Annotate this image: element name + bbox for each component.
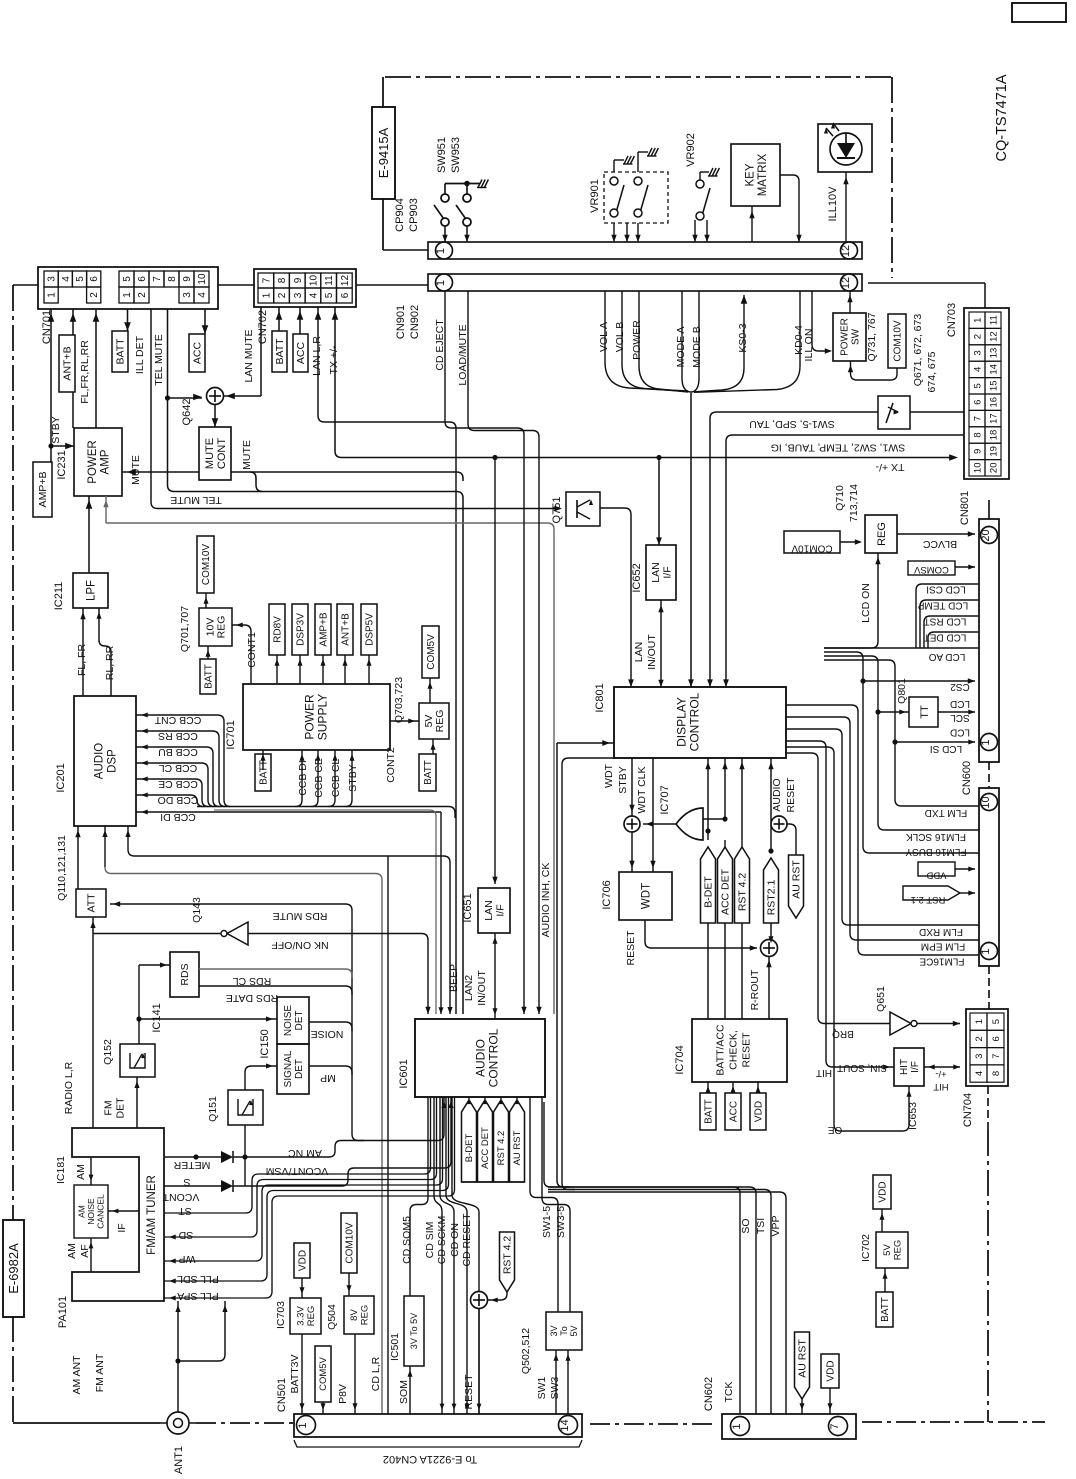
svg-text:7: 7 [829,1423,841,1429]
opto box Q6xx (SW1-5 line) [878,396,910,429]
svg-text:CCB CE: CCB CE [313,758,325,798]
svg-text:To E-9221A CN402: To E-9221A CN402 [383,1453,477,1465]
svg-text:VOL A: VOL A [598,322,610,352]
net LCD DET [928,632,979,648]
svg-text:WDT CLK: WDT CLK [636,766,648,813]
svg-text:RDS DATE: RDS DATE [226,992,278,1004]
svg-text:HIT: HIT [933,1081,949,1092]
svg-text:10: 10 [197,273,208,285]
svg-text:FL,FR,RL,RR: FL,FR,RL,RR [79,340,91,404]
svg-text:18: 18 [989,430,1000,441]
net LCD SI [892,739,897,744]
svg-text:SW3: SW3 [549,1376,561,1399]
net BATT (CN702) [278,307,280,331]
block 3V To 5V (switches) [546,1312,582,1350]
svg-text:FM ANT: FM ANT [94,1353,106,1392]
dsp bottom long nets [104,826,106,867]
net SW1, SW2, TEMP, TAUB, IG [726,435,964,545]
svg-text:RL, RR: RL, RR [104,645,116,680]
svg-text:CONT1: CONT1 [246,632,258,668]
box BATT (5v reg) [432,739,434,754]
svg-text:AUDIO INH, CK: AUDIO INH, CK [540,863,552,938]
svg-text:2: 2 [974,1036,985,1041]
svg-text:CCB DI: CCB DI [297,760,309,796]
E-9415A module dash-dot border [385,76,892,78]
right column dash-dot links [988,500,990,519]
box BATT (10v) [207,646,209,659]
sum node R-ROUT [761,940,778,957]
net BATT (CN701) [127,309,129,331]
net FLM16 SCLK [878,824,979,831]
svg-text:11: 11 [989,315,1000,325]
svg-text:FLM16 SCLK: FLM16 SCLK [906,831,966,842]
E-9415A label box [372,107,395,199]
svg-text:674, 675: 674, 675 [926,351,938,392]
svg-text:12: 12 [840,245,852,257]
svg-text:AU RST: AU RST [796,1339,808,1378]
svg-text:RST 4.2: RST 4.2 [496,1131,507,1166]
sum node WDT [624,816,640,832]
svg-text:Q502,512: Q502,512 [520,1328,532,1374]
svg-text:IC652: IC652 [631,563,643,592]
svg-text:LCD DET: LCD DET [924,632,967,643]
svg-text:AU RST: AU RST [512,1130,523,1165]
svg-text:CCB BU: CCB BU [158,746,198,758]
connector CN702 [254,269,356,307]
svg-text:HIT: HIT [816,1067,832,1078]
page number box (top right) [1012,3,1066,22]
svg-text:IC706: IC706 [601,880,613,909]
svg-text:1: 1 [974,1019,985,1024]
svg-text:10: 10 [980,796,992,808]
connector bar E-9415A side (pins 1-12) [428,242,862,259]
sum node cd reset [471,1292,488,1309]
wire bar2 to CN703 [868,282,985,284]
switch SW953 [463,194,471,202]
svg-text:PA101: PA101 [57,1296,69,1328]
svg-text:BATT3V: BATT3V [289,1355,301,1394]
svg-text:AMP+B: AMP+B [37,472,49,508]
svg-text:CCB CNT: CCB CNT [154,714,201,726]
wire sum to WDT block [631,832,633,872]
svg-text:2: 2 [89,292,100,298]
svg-text:1: 1 [47,292,58,298]
svg-text:Q751: Q751 [551,497,563,524]
svg-text:R-ROUT: R-ROUT [749,969,761,1010]
svg-text:3: 3 [293,292,304,298]
svg-text:E-9415A: E-9415A [376,127,391,178]
svg-text:7: 7 [991,1054,1002,1059]
svg-text:1: 1 [973,318,984,323]
svg-text:MP: MP [320,1072,336,1084]
svg-text:6: 6 [973,400,984,405]
net RDS DATE [199,986,352,995]
wire CN701 to CN702 [218,284,254,286]
svg-text:Q731, 767: Q731, 767 [866,312,878,361]
net AMP+B / STBY (pin1) [50,309,52,462]
svg-text:5: 5 [75,276,86,282]
svg-text:BATT: BATT [423,760,434,785]
svg-text:13: 13 [989,348,1000,359]
net LCD TEMP [920,600,979,648]
svg-text:19: 19 [989,446,1000,457]
svg-text:ACC DET: ACC DET [480,1127,491,1169]
antenna ANT1 [167,1412,189,1434]
box VDD (cn602) [821,1354,839,1388]
wire SW953 to bar1 [466,226,468,242]
VR901 dashed box [604,172,668,223]
svg-text:1: 1 [435,280,447,286]
svg-text:2: 2 [137,292,148,298]
svg-text:DSP5V: DSP5V [364,613,375,646]
wire sum to MUTE CONT [214,405,216,428]
connector CN703 (pins 1-20) [964,308,1009,479]
svg-text:4: 4 [974,1071,985,1076]
net LAN line drop from TX bus [658,458,660,546]
cd control nets to CN501 [434,1097,442,1414]
svg-text:Q710: Q710 [834,485,846,511]
svg-text:CN600: CN600 [961,761,973,795]
svg-text:VR901: VR901 [589,179,601,213]
svg-text:Q143: Q143 [191,897,203,923]
svg-text:COM5V: COM5V [426,634,437,670]
svg-text:CD L,R: CD L,R [370,1356,382,1391]
svg-text:SCL: SCL [950,712,970,723]
box VDD (3.3v) [294,1243,310,1278]
svg-text:3VTo5V: 3VTo5V [549,1325,579,1336]
svg-text:AMP+B: AMP+B [318,612,329,647]
svg-text:TSI: TSI [755,1218,767,1234]
box ACC [189,334,205,372]
svg-text:ACC DET: ACC DET [719,868,731,915]
svg-text:IC702: IC702 [860,1234,872,1262]
svg-text:6: 6 [991,1036,1002,1041]
net CCB DI (dsp) [136,811,441,813]
svg-text:1: 1 [731,1423,743,1429]
net CONT1 [232,625,251,684]
svg-text:BLVCC: BLVCC [922,538,957,550]
wire SW951 to bar1 [444,226,446,242]
net SIN, SOUT / HIT [786,741,894,1067]
net FLM RXD [786,729,979,925]
box VDD (CN600) [918,862,955,876]
svg-text:RST2.1: RST2.1 [765,880,777,916]
svg-text:COM10V: COM10V [892,320,903,361]
svg-text:4: 4 [308,292,319,298]
svg-text:3V To 5V: 3V To 5V [409,1313,419,1349]
svg-text:RD8V: RD8V [272,616,283,643]
net FLM16CE [786,705,979,955]
net LCD CSI [916,584,979,648]
ccb bus lines [136,715,231,807]
main unit border (left dash-dot) [12,285,14,1220]
svg-text:IC141: IC141 [151,1003,163,1032]
svg-text:713,714: 713,714 [848,484,860,522]
connector CN801 [979,519,999,762]
net MUTE return to MUTE CONT [231,472,463,481]
block 10V REG [199,608,232,646]
KEY MATRIX block [731,144,780,206]
net drop from TX bus to LAN I/F IC651 [494,458,496,885]
wires VR901 to bar1 [613,223,615,242]
svg-text:IC201: IC201 [55,763,67,792]
svg-text:ILL10V: ILL10V [827,186,839,222]
right border dash-dot (bottom) [987,1130,989,1422]
svg-text:CCB CL: CCB CL [330,759,342,798]
block AM NOISE CANCEL [74,1185,108,1238]
VR901 switch a [610,177,618,185]
box COM5V (5v reg) [429,678,431,703]
svg-text:FLM16CE: FLM16CE [919,956,964,967]
net LCD RST [924,616,979,648]
svg-text:ACC: ACC [295,341,307,364]
svg-text:10: 10 [308,275,319,287]
svg-text:FLM RXD: FLM RXD [919,926,963,937]
box VDD (ic702) [873,1175,891,1209]
svg-text:PLL SDL: PLL SDL [177,1273,219,1285]
net ACC (CN701) [204,309,206,334]
svg-text:WP: WP [179,1253,196,1265]
box BATT (ic702) [876,1292,893,1327]
svg-text:SD: SD [178,1229,193,1241]
wire Q151 to SIGNAL DET [245,1066,277,1090]
svg-text:6: 6 [340,292,351,298]
svg-text:CN901: CN901 [395,305,407,339]
svg-text:+/-: +/- [935,1068,946,1079]
net to POWER AMP pin2 (long gray) [105,496,107,523]
net ANT+B [72,309,74,335]
net FLM EPM [786,717,979,940]
svg-text:AM: AM [66,1243,78,1259]
svg-text:AUDIO: AUDIO [771,778,783,811]
svg-text:Q151: Q151 [207,1096,219,1122]
svg-text:VDD: VDD [825,1360,836,1381]
svg-text:SIN, SOUT: SIN, SOUT [837,1062,887,1073]
svg-text:CCB DO: CCB DO [158,794,199,806]
net MP [309,1066,352,1075]
connector bar CN602 [722,1414,856,1439]
E-6982A label box [3,1220,24,1317]
svg-text:4: 4 [61,276,72,282]
svg-text:CD SCKM: CD SCKM [436,1216,448,1264]
svg-text:ANT1: ANT1 [173,1446,185,1474]
connector CN600 [979,788,999,966]
svg-text:BATT: BATT [258,760,269,785]
net ACC (CN702) [299,307,301,334]
wire border to CN701 [13,284,38,286]
net OE [786,747,909,1131]
box AMP+B [33,462,52,517]
svg-text:RADIO L,R: RADIO L,R [63,1061,75,1114]
svg-text:12: 12 [840,277,852,289]
diode D2 [221,1180,233,1192]
wire 10V REG to COM10V [205,593,207,608]
svg-text:5: 5 [122,276,133,282]
wire to RDS input [136,1016,141,1021]
box COM10V (keys) [888,314,906,368]
svg-text:LCD AO: LCD AO [928,651,965,662]
svg-text:17: 17 [989,413,1000,424]
svg-text:14: 14 [989,364,1000,375]
svg-text:FLM EPM: FLM EPM [921,941,965,952]
svg-text:8: 8 [973,432,984,437]
svg-text:TX +/-: TX +/- [328,345,340,374]
svg-text:POWERSUPPLY: POWERSUPPLY [303,694,330,740]
svg-text:TEL MUTE: TEL MUTE [153,334,165,386]
svg-text:16: 16 [989,397,1000,408]
svg-text:15: 15 [989,381,1000,392]
svg-text:LCD ON: LCD ON [860,583,872,623]
box ANT+B [59,335,75,392]
connector bar CN501 [294,1414,582,1437]
switch SW951 [441,194,449,202]
wire into Q801 [875,709,880,714]
svg-text:SW1-5: SW1-5 [541,1206,553,1238]
funnel to display control [690,391,692,687]
box COMSV [908,561,955,575]
svg-text:FL, FR: FL, FR [76,644,88,677]
svg-text:VDD: VDD [753,1101,764,1122]
svg-text:HITI/F: HITI/F [899,1059,921,1075]
wire Q151 bottom [244,1125,246,1186]
svg-text:CD EJECT: CD EJECT [434,319,446,371]
wire Q751 to DISPLAY CONTROL [600,508,631,687]
net AU RST pennant [789,855,804,918]
wire COM10V to REG [840,541,860,543]
svg-text:SO: SO [740,1218,752,1233]
svg-text:IC701: IC701 [225,720,237,749]
svg-text:CN602: CN602 [703,1377,715,1411]
svg-text:NK ON/OFF: NK ON/OFF [271,939,328,951]
svg-text:6: 6 [89,276,100,282]
svg-text:CQ-TS7471A: CQ-TS7471A [994,74,1010,161]
svg-text:20: 20 [989,463,1000,474]
svg-text:ANT+B: ANT+B [61,346,73,380]
net RST 4.2 flag [741,758,743,840]
block HIT I/F IC653 [894,1048,924,1086]
svg-text:IC707: IC707 [659,785,671,814]
svg-text:LOAD/MUTE: LOAD/MUTE [457,324,469,385]
svg-text:LCD: LCD [950,727,970,738]
box COM10V (psu) [197,536,214,593]
wire TEL MUTE branch to sum [168,397,203,399]
svg-text:CN902: CN902 [409,305,421,339]
svg-text:1: 1 [297,1422,309,1428]
box ACC (IC704) [732,1082,734,1093]
svg-text:VDD: VDD [926,870,946,881]
svg-text:8: 8 [167,276,178,282]
svg-text:LAN MUTE: LAN MUTE [243,329,255,382]
svg-text:IC231: IC231 [56,450,68,479]
svg-text:IC704: IC704 [674,1045,686,1074]
wire ATT to DSP [77,826,79,889]
svg-text:CD SOM5: CD SOM5 [401,1216,413,1264]
svg-text:AM: AM [75,1164,87,1180]
svg-text:5: 5 [991,1019,1002,1024]
svg-text:5: 5 [973,383,984,388]
svg-text:CD ON: CD ON [449,1223,461,1257]
wire PSU to 5V REG [390,720,419,722]
svg-text:LCD CSI: LCD CSI [926,584,965,595]
svg-text:IF: IF [116,1223,128,1232]
tuner control nets ST SD WP PLL SDL PLL SPA [164,1097,431,1213]
svg-text:FLM TXD: FLM TXD [925,807,968,818]
box BATT (IC704) [707,1082,709,1093]
net FL,FR,RL,RR [95,309,97,428]
net RST2.1 flag [770,758,772,851]
svg-text:8: 8 [277,277,288,283]
svg-text:MUTECONT: MUTECONT [204,438,228,469]
block SIGNAL DET [277,1044,309,1094]
svg-text:VOL B: VOL B [614,322,626,353]
svg-text:WDT: WDT [641,883,653,909]
svg-text:BRQ: BRQ [832,1028,854,1039]
wire bar1 to KEY MATRIX [751,206,753,242]
svg-text:11: 11 [324,275,335,286]
svg-text:CCB CE: CCB CE [158,778,198,790]
svg-text:VCONT/VSM: VCONT/VSM [266,1165,328,1177]
svg-text:Q504: Q504 [326,1304,338,1330]
svg-text:POWER: POWER [631,320,643,360]
svg-text:ACC: ACC [191,341,203,364]
svg-text:ST: ST [178,1205,192,1217]
svg-text:Q671, 672, 673: Q671, 672, 673 [912,314,924,387]
svg-text:BATT: BATT [880,1297,891,1322]
block 3.3V REG [290,1298,321,1334]
svg-text:CP904: CP904 [394,198,406,232]
svg-text:IC211: IC211 [53,582,65,611]
svg-text:CD SIM: CD SIM [424,1222,436,1259]
svg-text:ATT: ATT [86,893,98,913]
net NK ON/OFF [93,933,221,935]
net NOISE [309,1022,352,1031]
svg-text:Q110,121,131: Q110,121,131 [56,835,68,901]
svg-text:9: 9 [293,277,304,283]
svg-text:SW3-5: SW3-5 [555,1206,567,1238]
svg-text:RST 4.2: RST 4.2 [736,873,748,911]
svg-text:CN501: CN501 [276,1378,288,1412]
svg-text:CN702: CN702 [257,310,269,344]
svg-text:STBY: STBY [617,766,629,793]
svg-text:12: 12 [989,331,1000,342]
svg-text:Q801: Q801 [896,678,908,704]
box COM10V (lcd) [784,531,840,553]
net BLVCC [897,533,975,535]
svg-text:MUTE: MUTE [241,440,253,470]
svg-text:MODE B: MODE B [691,326,703,367]
svg-text:VPP: VPP [770,1215,782,1236]
box COM5V (cn501) [315,1346,331,1402]
svg-text:IC150: IC150 [259,1029,271,1058]
svg-text:9: 9 [182,276,193,282]
svg-text:CCB DI: CCB DI [160,811,196,823]
net RESET into CN501 [478,1309,480,1415]
svg-text:2: 2 [973,334,984,339]
svg-text:LCD TEMP: LCD TEMP [917,600,968,611]
svg-text:IC651: IC651 [462,893,474,922]
net ACC DET flag [724,758,726,819]
svg-text:FM/AM TUNER: FM/AM TUNER [146,1175,158,1255]
svg-text:P8V: P8V [337,1384,349,1404]
svg-text:MUTE: MUTE [130,455,142,485]
flag AU RST (cn602) [795,1332,810,1399]
net AM NC [193,1154,198,1159]
svg-text:RDS: RDS [179,963,191,985]
net LCD SCL [938,711,975,713]
svg-text:BATT: BATT [703,1099,714,1124]
svg-text:CP903: CP903 [408,198,420,232]
svg-text:IC181: IC181 [55,1156,67,1184]
